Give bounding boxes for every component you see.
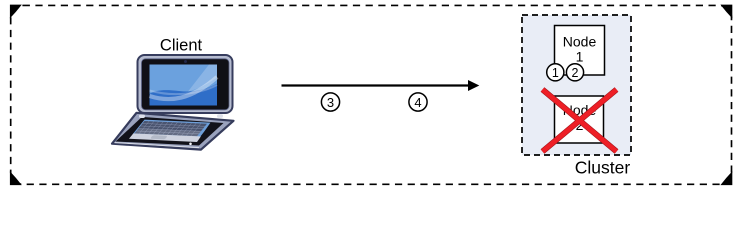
svg-text:Node: Node	[563, 34, 597, 50]
hinge glints	[139, 115, 145, 119]
base inner black deck border	[116, 117, 224, 146]
key grid lines	[134, 121, 207, 136]
svg-text:4: 4	[414, 95, 421, 110]
svg-text:1: 1	[552, 66, 559, 80]
palm rest	[116, 133, 206, 144]
svg-text:2: 2	[572, 66, 579, 80]
screen diagonal streak	[188, 65, 217, 92]
svg-text:Client: Client	[160, 37, 203, 55]
screen	[150, 65, 218, 106]
step circle 1	[547, 64, 564, 81]
screen swooshes	[150, 77, 218, 99]
blue deck surface around keys	[131, 119, 212, 137]
node 1 box	[555, 26, 605, 76]
base rim	[112, 113, 234, 150]
step circle 3	[321, 93, 339, 111]
red X failure mark over node 2	[543, 90, 617, 152]
arrow from client to cluster	[282, 80, 480, 91]
client label	[160, 37, 203, 55]
svg-text:Cluster: Cluster	[575, 158, 631, 178]
cluster label	[575, 158, 631, 178]
node 2 box	[555, 96, 604, 143]
webcam dot	[184, 60, 187, 63]
keyboard deck (skewed, clipped)	[116, 119, 217, 144]
lighter front key rows	[134, 128, 201, 136]
outer dashed frame is decorative: drawn without further labels	[11, 5, 732, 184]
svg-text:1: 1	[576, 49, 584, 65]
node 1 label	[563, 34, 597, 65]
touchpad	[150, 135, 168, 139]
cluster container	[522, 15, 631, 155]
step circle 2	[566, 64, 583, 81]
step circle 4	[409, 93, 427, 111]
screen light area	[150, 65, 218, 94]
keys field	[134, 121, 207, 136]
lid inner bezel	[142, 59, 230, 110]
rim front highlight	[115, 143, 200, 148]
lid outer frame	[138, 55, 233, 113]
rim glint bottom-right	[189, 143, 192, 146]
node 2 label	[563, 102, 597, 133]
svg-text:3: 3	[327, 95, 334, 110]
